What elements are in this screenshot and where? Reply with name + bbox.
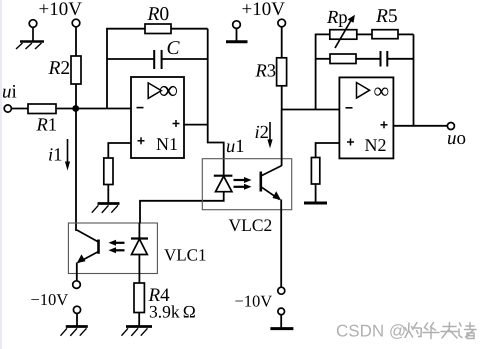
transistor in VLC1 — [77, 230, 99, 263]
node uo output terminal — [447, 123, 454, 130]
wire +10V to R3 — [281, 27, 283, 58]
junction node — [72, 105, 79, 112]
wire R4 to ground — [138, 313, 140, 327]
wire resistor to ground — [315, 184, 317, 202]
resistor (N2 + input) — [311, 158, 319, 185]
light arrows VLC1 (pointing left) — [109, 240, 125, 254]
wire junction down to VLC1 collector — [75, 109, 77, 232]
ground (under N1 + resistor, hatched) — [92, 204, 120, 213]
wire C to right feedback vertical — [162, 58, 208, 60]
optocoupler VLC1 box — [68, 223, 157, 274]
wire N2 noninverting input to resistor — [316, 143, 340, 158]
wire N1 noninverting input to resistor — [108, 143, 131, 158]
wire C row left — [107, 58, 154, 60]
label +10V (left supply) — [39, 2, 81, 15]
label -10V (right) — [235, 296, 272, 307]
wire node to N2 inverting input — [282, 109, 340, 111]
node ui input terminal — [3, 85, 16, 98]
ground (middle top, bar style, with terminal circle) — [226, 21, 248, 42]
wire feedback left vertical — [107, 29, 145, 109]
wire input to R1 — [11, 108, 28, 110]
wire resistor to capacitor — [356, 58, 380, 60]
resistor (N1 + input) — [104, 158, 113, 185]
current arrow i2 — [256, 122, 273, 148]
ground (below -10V left, hatched, with terminal circle) — [61, 306, 88, 336]
capacitor (second feedback row) — [381, 51, 388, 67]
wire resistor to ground — [107, 185, 109, 204]
capacitor C — [154, 50, 161, 69]
wire N2 feedback left vertical — [316, 34, 330, 109]
resistor R1 — [28, 104, 56, 114]
resistor R0 — [145, 24, 171, 34]
value 3.9kΩ — [150, 305, 195, 317]
resistor R2 — [71, 56, 81, 84]
light arrows VLC2 (pointing right) — [234, 177, 252, 190]
resistor R4 — [134, 283, 144, 313]
wire N1 output — [184, 124, 208, 126]
wire R3 to node — [281, 86, 283, 110]
watermark — [337, 323, 476, 339]
resistor R3 — [277, 58, 287, 86]
wire VLC2 emitter down to -10V terminal — [280, 200, 282, 288]
label +10V (right supply) — [242, 2, 284, 15]
current arrow i1 — [49, 139, 70, 171]
wire VLC1 emitter to -10V terminal — [76, 263, 78, 282]
potentiometer Rp — [327, 11, 357, 48]
wire u1 horizontal link VLC2 LED to VLC1 LED — [140, 192, 224, 223]
wire N2 output to uo — [393, 125, 447, 127]
ground (top-left, hatched, with terminal circle) — [16, 20, 44, 49]
+10V terminal (right) — [278, 19, 286, 27]
wire R0 to right feedback vertical — [171, 28, 208, 30]
node u1 — [227, 140, 243, 152]
+10V terminal (left) — [72, 19, 80, 27]
op-amp N2 — [339, 77, 393, 158]
ground (below -10V right, bar style, with terminal circle) — [270, 308, 293, 329]
wire Rp to R5 — [357, 33, 372, 35]
optocoupler VLC2 box — [202, 159, 291, 210]
wire R2 to junction — [75, 84, 77, 109]
wire right feedback vertical — [413, 34, 415, 125]
wire VLC2 collector up to R3 node — [281, 110, 283, 167]
resistor R5 — [372, 30, 398, 39]
ground (below R4, hatched) — [122, 327, 153, 336]
wire second feedback row left — [316, 58, 330, 60]
wire R1 to N1 inverting input — [56, 108, 131, 110]
transistor in VLC2 — [261, 166, 282, 200]
page left border — [0, 0, 2, 349]
LED in VLC1 — [131, 223, 148, 283]
wire R5 to right vertical — [398, 33, 414, 35]
wire right feedback vertical to output and u1 step — [208, 29, 224, 176]
ground (under N2 + resistor, bar style) — [304, 202, 327, 205]
op-amp N1 — [131, 77, 184, 158]
wire capacitor to right vertical — [387, 58, 413, 60]
resistor (second feedback row) — [330, 54, 356, 64]
wire +10V to R2 — [75, 27, 77, 56]
label -10V (left) — [31, 294, 68, 305]
LED in VLC2 — [214, 176, 233, 192]
